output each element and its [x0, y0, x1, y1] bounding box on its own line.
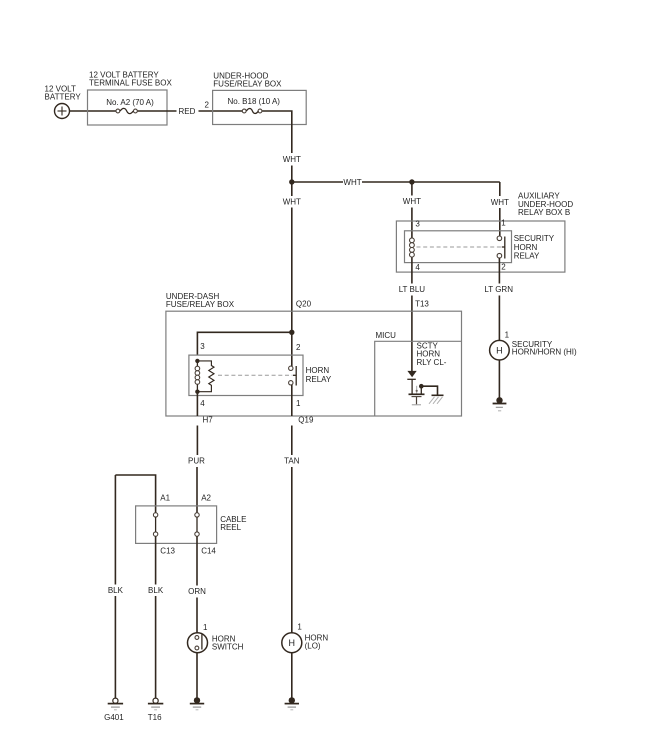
wire LT GRN down to security horn — [498, 296, 500, 341]
svg-text:H7: H7 — [203, 415, 214, 424]
relay switch contacts (horn relay) — [289, 366, 297, 386]
relay coil (security horn relay) — [410, 238, 415, 258]
svg-text:A2: A2 — [201, 493, 211, 502]
wire relay pin 4 down — [411, 258, 413, 284]
svg-text:REEL: REEL — [220, 523, 241, 532]
relay dashed link (security horn relay) — [417, 246, 503, 248]
svg-text:4: 4 — [415, 263, 420, 272]
ground T16 (open bolt) — [148, 698, 163, 710]
wire horn (LO) to ground — [291, 653, 293, 699]
cable reel contact A1 — [153, 513, 157, 517]
wire LT BLU down to under-dash box — [411, 296, 413, 373]
wire middle branch above label — [411, 182, 413, 196]
svg-text:Q20: Q20 — [296, 300, 312, 309]
wire trunk WHT upper — [291, 125, 293, 154]
wire horn relay pin 1 down to Q19 — [291, 385, 293, 416]
cable reel contact C14 — [195, 532, 199, 536]
svg-text:RELAY BOX B: RELAY BOX B — [518, 208, 570, 217]
ground (security horn) — [493, 397, 507, 411]
svg-text:HORN: HORN — [514, 243, 538, 252]
wire battery to fuse box 1 — [70, 110, 117, 112]
svg-text:BATTERY: BATTERY — [45, 92, 82, 101]
wire BLK C13 down to T16 — [155, 596, 157, 699]
svg-text:No. B18 (10 A): No. B18 (10 A) — [228, 97, 281, 106]
wire inside cable reel left — [155, 517, 157, 532]
wire fuse A2 to RED label — [138, 110, 177, 112]
svg-text:2: 2 — [296, 343, 301, 352]
wire fuse B18 elbow down — [262, 111, 292, 125]
svg-text:H: H — [289, 638, 296, 648]
svg-text:T16: T16 — [148, 713, 162, 722]
svg-text:WHT: WHT — [283, 155, 301, 164]
wire Q19 down to TAN — [291, 426, 293, 456]
wire H7 down to PUR — [196, 426, 198, 456]
svg-text:PUR: PUR — [188, 457, 205, 466]
svg-text:4: 4 — [200, 399, 205, 408]
wire C14 down to ORN — [196, 536, 198, 585]
svg-text:RLY CL-: RLY CL- — [417, 358, 447, 367]
under-dash fuse/relay box — [166, 311, 462, 416]
cable reel contact A2 — [195, 513, 199, 517]
horn (LO) label — [305, 633, 329, 650]
svg-text:LT BLU: LT BLU — [399, 285, 426, 294]
wire elbow to cable reel A1 — [115, 475, 155, 513]
svg-text:RELAY: RELAY — [514, 252, 540, 261]
diode (MICU driver input) — [407, 371, 416, 379]
node junction dot at trunk — [289, 179, 294, 184]
svg-text:BLK: BLK — [148, 586, 164, 595]
relay dashed link (horn relay) — [218, 374, 293, 376]
wire horn switch to ground — [196, 653, 198, 699]
wire horizontal bus left segment — [292, 181, 343, 183]
svg-text:T13: T13 — [415, 300, 429, 309]
wire ORN down to horn switch — [196, 598, 198, 634]
node dot bottom of coil — [195, 390, 199, 394]
wire left branch down to under-dash box — [291, 208, 293, 333]
under-dash box title — [166, 292, 235, 309]
cable reel label — [220, 515, 246, 532]
wire inside cable reel right — [196, 517, 198, 532]
under-hood fuse/relay box — [213, 90, 307, 124]
ground G401 (open bolt) — [108, 698, 123, 710]
wire horn relay pin 4 down to H7 — [196, 392, 198, 416]
security horn relay box — [405, 231, 512, 263]
fuse B18 — [242, 109, 262, 114]
svg-text:WHT: WHT — [403, 197, 421, 206]
security horn/horn (HI) — [490, 340, 510, 360]
svg-text:TERMINAL FUSE BOX: TERMINAL FUSE BOX — [89, 79, 172, 88]
SCTY HORN RLY CL- label — [417, 342, 447, 367]
wire PUR down to cable reel A2 — [196, 467, 198, 513]
svg-text:SWITCH: SWITCH — [212, 643, 244, 652]
MICU box — [375, 341, 462, 416]
auxiliary under-hood relay box B — [396, 221, 565, 272]
node junction dot at x412 — [409, 179, 414, 184]
svg-text:C13: C13 — [160, 547, 175, 556]
security horn relay label — [514, 234, 555, 260]
aux relay box title — [518, 192, 573, 217]
wire TAN down to horn (LO) — [291, 467, 293, 633]
fuse A2 — [116, 108, 137, 113]
svg-text:1: 1 — [505, 330, 510, 339]
horn relay box — [189, 355, 303, 395]
svg-text:No. A2 (70 A): No. A2 (70 A) — [106, 98, 154, 107]
wire trunk to junction — [291, 166, 293, 197]
wire junction to horn relay pin 3 — [197, 332, 291, 355]
wire trunk junction down to horn relay pin 2 — [291, 332, 293, 366]
svg-text:MICU: MICU — [376, 331, 397, 340]
svg-text:2: 2 — [501, 262, 506, 271]
svg-text:1: 1 — [501, 219, 506, 228]
wire RED to fuse box 2 — [199, 110, 243, 112]
fuse box 1 title — [89, 71, 172, 88]
ground (horn switch) — [190, 697, 204, 710]
wire relay pin 2 down (switch out) — [498, 258, 500, 284]
svg-text:H: H — [496, 346, 503, 356]
svg-text:1: 1 — [297, 622, 302, 631]
security horn label — [512, 340, 577, 357]
svg-text:TAN: TAN — [284, 457, 300, 466]
relay coil (horn relay) — [195, 361, 200, 392]
wire right branch elbow down — [499, 182, 501, 196]
wire BLK left down to G401 — [114, 596, 116, 699]
svg-text:WHT: WHT — [491, 198, 509, 207]
cable reel box — [136, 506, 217, 544]
svg-text:C14: C14 — [201, 547, 216, 556]
wire right branch down to relay pin 1 — [499, 208, 501, 239]
svg-text:BLK: BLK — [108, 586, 124, 595]
svg-text:3: 3 — [200, 342, 205, 351]
ground (horn LO) — [285, 697, 299, 710]
horn switch label — [212, 635, 244, 652]
svg-text:WHT: WHT — [283, 197, 301, 206]
battery label — [45, 84, 82, 101]
svg-text:3: 3 — [415, 219, 420, 228]
wire middle branch down to relay pin 3 — [411, 208, 413, 239]
horn relay label — [306, 366, 332, 384]
svg-text:LT GRN: LT GRN — [484, 285, 513, 294]
transistor (MICU output driver) — [409, 379, 438, 405]
wire horizontal bus right segment — [362, 181, 500, 183]
battery 12 VOLT BATTERY — [55, 104, 70, 119]
relay switch contacts (security horn relay) — [497, 236, 505, 259]
node junction dot inside under-dash box — [289, 330, 294, 335]
svg-text:2: 2 — [205, 100, 210, 109]
horn (LO) — [282, 633, 302, 653]
svg-text:FUSE/RELAY BOX: FUSE/RELAY BOX — [213, 80, 282, 89]
cable reel contact C13 — [153, 532, 157, 536]
chassis ground (MICU) — [429, 395, 444, 404]
svg-text:(LO): (LO) — [305, 641, 321, 650]
fuse box 2 title — [213, 72, 282, 89]
svg-text:HORN: HORN — [306, 366, 330, 375]
svg-text:1: 1 — [296, 399, 301, 408]
svg-text:ORN: ORN — [188, 587, 206, 596]
svg-text:Q19: Q19 — [298, 415, 314, 424]
svg-text:SECURITY: SECURITY — [514, 234, 555, 243]
svg-text:WHT: WHT — [343, 178, 361, 187]
svg-text:A1: A1 — [160, 493, 170, 502]
node dot top of coil — [195, 359, 199, 363]
svg-text:FUSE/RELAY BOX: FUSE/RELAY BOX — [166, 300, 235, 309]
12 volt battery terminal fuse box — [88, 90, 168, 125]
horn switch — [188, 633, 208, 653]
relay resistor parallel branch — [197, 361, 214, 392]
wire left branch down to BLK — [114, 475, 116, 585]
svg-text:HORN/HORN (HI): HORN/HORN (HI) — [512, 348, 577, 357]
wire C13 down to BLK — [155, 536, 157, 584]
svg-text:RED: RED — [179, 107, 196, 116]
svg-text:RELAY: RELAY — [306, 375, 332, 384]
svg-text:G401: G401 — [104, 713, 124, 722]
wire security horn to ground — [498, 360, 500, 399]
svg-text:1: 1 — [203, 623, 208, 632]
